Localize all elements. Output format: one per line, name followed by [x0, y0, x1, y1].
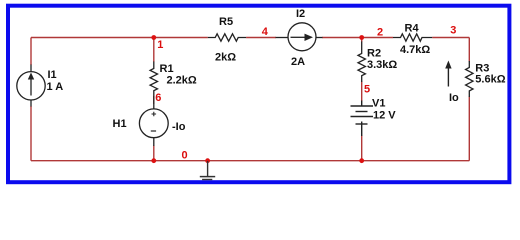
svg-text:Io: Io: [449, 92, 459, 104]
svg-text:5: 5: [364, 83, 370, 95]
svg-text:6: 6: [155, 92, 161, 104]
svg-text:I2: I2: [296, 8, 305, 20]
svg-text:R4: R4: [405, 22, 420, 34]
svg-text:5.6kΩ: 5.6kΩ: [475, 74, 505, 86]
svg-text:V1: V1: [372, 97, 385, 109]
svg-text:0: 0: [182, 149, 188, 161]
svg-text:3.3kΩ: 3.3kΩ: [367, 59, 397, 71]
svg-text:2.2kΩ: 2.2kΩ: [167, 74, 197, 86]
svg-text:12 V: 12 V: [373, 109, 396, 121]
svg-text:1 A: 1 A: [47, 81, 64, 93]
svg-text:3: 3: [450, 25, 456, 37]
svg-text:4: 4: [262, 26, 269, 38]
svg-text:4.7kΩ: 4.7kΩ: [400, 44, 430, 56]
svg-text:H1: H1: [113, 118, 127, 130]
svg-text:2kΩ: 2kΩ: [215, 52, 236, 64]
svg-text:I1: I1: [48, 69, 57, 81]
svg-text:1: 1: [157, 39, 163, 51]
svg-text:-Io: -Io: [172, 121, 186, 133]
svg-text:2A: 2A: [291, 56, 305, 68]
svg-text:R1: R1: [160, 63, 174, 75]
svg-text:R2: R2: [367, 47, 381, 59]
svg-text:2: 2: [377, 26, 383, 38]
svg-text:R5: R5: [219, 16, 233, 28]
